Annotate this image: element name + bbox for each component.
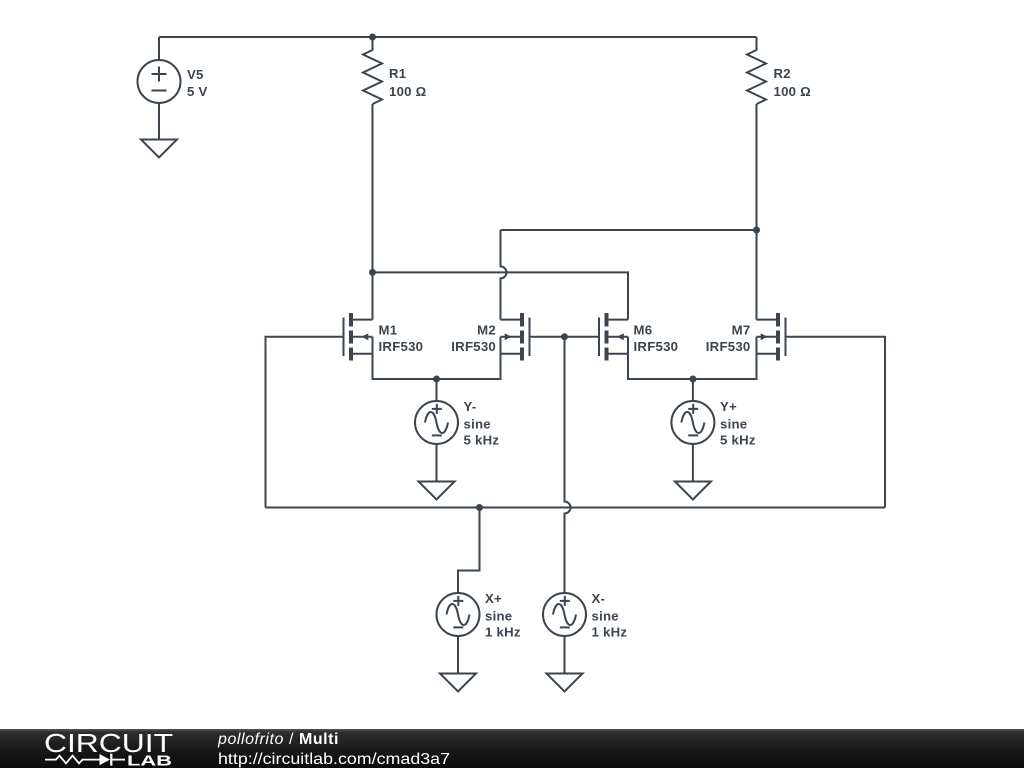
svg-text:IRF530: IRF530 <box>379 339 424 354</box>
resistor R2 <box>747 37 766 104</box>
voltage source X+ sine <box>437 593 480 636</box>
wire bottom gate rail <box>266 507 886 509</box>
node junction bottom rail / X+ <box>476 504 483 511</box>
wire X- bottom lead <box>564 636 566 674</box>
ground below Y- <box>419 482 455 500</box>
node junction R1 wire / y=272 wire <box>369 269 376 276</box>
svg-text:M1: M1 <box>379 322 398 337</box>
voltage source Y- sine <box>415 401 458 444</box>
wire M6-M7 source rail <box>628 354 757 379</box>
footer bar <box>0 729 1024 768</box>
svg-text:IRF530: IRF530 <box>634 339 679 354</box>
wire M7 gate to right rail down to bottom rail <box>786 337 886 508</box>
svg-text:X-: X- <box>592 591 606 606</box>
voltage source V5 <box>138 60 181 103</box>
wire Y- top lead <box>436 379 438 401</box>
ground below Y+ <box>675 482 711 500</box>
ground below X- <box>547 674 583 692</box>
svg-text:100 Ω: 100 Ω <box>774 84 812 99</box>
label M7 <box>706 322 751 354</box>
voltage source X- sine <box>543 593 586 636</box>
node junction gates M2-M6 / X- wire <box>561 333 568 340</box>
wire Y- bottom lead <box>436 444 438 482</box>
transistor M1 <box>344 313 373 361</box>
svg-text:sine: sine <box>592 608 619 623</box>
resistor R1 <box>363 37 382 104</box>
svg-text:LAB: LAB <box>127 753 172 768</box>
transistor M7 <box>757 313 786 361</box>
label V5 <box>187 67 208 99</box>
wire R1 bottom to M1 drain <box>372 104 374 320</box>
wire top rail <box>159 36 757 38</box>
wire X+ bottom lead <box>457 636 459 674</box>
node junction top rail / R1 <box>369 34 376 41</box>
node junction R2 wire / cross wire <box>753 227 760 234</box>
node junction source rail / Y- <box>433 376 440 383</box>
wire X- vertical with hop over bottom rail <box>565 337 571 593</box>
svg-text:1 kHz: 1 kHz <box>485 624 521 639</box>
label M1 <box>379 322 424 354</box>
svg-text:5 V: 5 V <box>187 84 208 99</box>
wire M1 gate to left rail down to bottom rail <box>266 337 344 508</box>
label Y+ <box>720 399 756 447</box>
node junction source rail / Y+ <box>689 376 696 383</box>
svg-text:Y+: Y+ <box>720 399 737 414</box>
label X+ <box>485 591 521 639</box>
svg-text:sine: sine <box>464 416 491 431</box>
label X- <box>592 591 628 639</box>
wire R2 bottom to M7 drain <box>756 104 758 320</box>
svg-text:http://circuitlab.com/cmad3a7: http://circuitlab.com/cmad3a7 <box>218 751 450 768</box>
svg-text:sine: sine <box>720 416 747 431</box>
wire Y+ top lead <box>692 379 694 401</box>
wire V5 top lead <box>158 37 160 60</box>
svg-text:pollofrito / Multi: pollofrito / Multi <box>217 731 339 748</box>
svg-text:IRF530: IRF530 <box>706 339 751 354</box>
wire M2 drain vertical with hop over y=272 wire <box>501 230 507 320</box>
wire y=230 from M2 drain to R2 <box>501 229 757 231</box>
svg-text:R2: R2 <box>774 66 791 81</box>
svg-text:100 Ω: 100 Ω <box>389 84 427 99</box>
label M2 <box>451 322 496 354</box>
wire y=272 from M1 drain to M6 drain <box>373 272 629 319</box>
svg-text:M7: M7 <box>732 322 751 337</box>
svg-text:V5: V5 <box>187 67 204 82</box>
wire Y+ bottom lead <box>692 444 694 482</box>
transistor M2 <box>501 313 530 361</box>
wire M2 gate to M6 gate <box>530 336 600 338</box>
svg-text:X+: X+ <box>485 591 502 606</box>
wire X+ branch <box>458 508 480 594</box>
svg-text:1 kHz: 1 kHz <box>592 624 628 639</box>
svg-text:sine: sine <box>485 608 512 623</box>
wire M1-M2 source rail <box>373 354 501 379</box>
logo resistor-diode glyph <box>45 754 125 766</box>
label R2 <box>774 66 812 99</box>
svg-text:M2: M2 <box>477 322 496 337</box>
voltage source Y+ sine <box>671 401 714 444</box>
label R1 <box>389 66 427 99</box>
label M6 <box>634 322 679 354</box>
svg-text:IRF530: IRF530 <box>451 339 496 354</box>
svg-text:Y-: Y- <box>464 399 477 414</box>
wire V5 bottom lead <box>158 103 160 140</box>
ground below V5 <box>141 140 177 158</box>
svg-text:M6: M6 <box>634 322 653 337</box>
transistor M6 <box>599 313 628 361</box>
svg-text:R1: R1 <box>389 66 406 81</box>
svg-text:5 kHz: 5 kHz <box>464 432 500 447</box>
svg-text:5 kHz: 5 kHz <box>720 432 756 447</box>
label Y- <box>464 399 500 447</box>
ground below X+ <box>440 674 476 692</box>
